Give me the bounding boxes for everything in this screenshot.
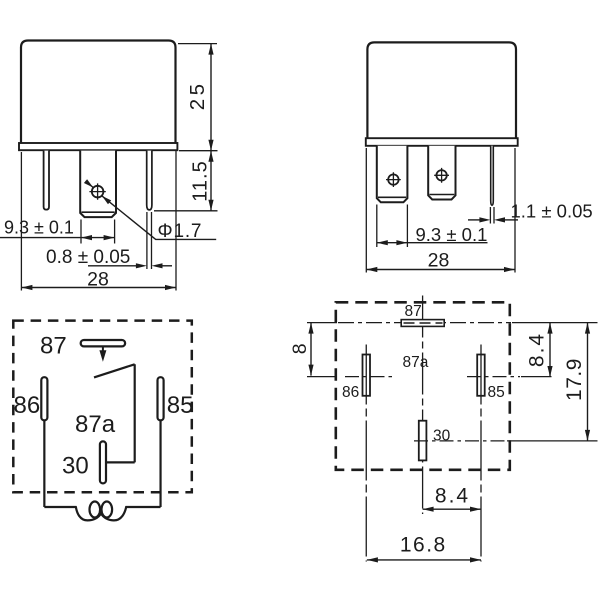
pin 30 pad (bottom view) xyxy=(419,421,427,461)
dim 0.8 extension lines xyxy=(147,212,152,269)
horizontal centerline through 86 (at pin) xyxy=(345,376,394,378)
relay base flange (front view) xyxy=(366,138,518,146)
coil L1 loop 2 xyxy=(102,502,113,518)
svg-text:28: 28 xyxy=(428,250,450,272)
dim 28 extension lines (view B) xyxy=(366,148,515,273)
dim 11.5 arrows xyxy=(208,151,213,162)
dim 8.4 line (bottom) xyxy=(423,508,481,510)
blade pin 86 (front view) xyxy=(377,146,408,203)
blade 86 tip fold line xyxy=(378,196,406,198)
dim 1.1 right tail and arrow xyxy=(505,219,519,221)
blade pin 30 (front view) xyxy=(428,146,455,200)
schematic dashed border xyxy=(13,321,192,493)
wire 85 down xyxy=(159,421,161,507)
svg-text:86: 86 xyxy=(342,384,359,401)
dim 17.9 line xyxy=(587,323,589,441)
svg-text:Φ1.7: Φ1.7 xyxy=(158,221,203,242)
coil L1 loop 1 xyxy=(90,502,101,518)
svg-text:87a: 87a xyxy=(403,354,429,371)
dim 9.3 line (view A) xyxy=(0,237,115,239)
coil L1 scallops xyxy=(76,506,127,520)
relay body (front view) xyxy=(367,42,516,139)
dim 0.8 left tail and arrow xyxy=(88,265,137,267)
contact 86 bar xyxy=(41,377,47,420)
svg-text:87: 87 xyxy=(405,303,422,320)
centerline inside 87 pad xyxy=(404,322,443,324)
pin right (side view) xyxy=(147,151,152,210)
horizontal centerline through 87 (inside box) xyxy=(338,322,511,324)
dim 8.4 arrows (bottom) xyxy=(423,507,434,512)
leader arrowhead upper-left of hole xyxy=(84,179,93,187)
bottom view dashed border xyxy=(336,302,510,470)
pin 86 vertical centerline xyxy=(365,345,367,562)
svg-text:11.5: 11.5 xyxy=(190,160,212,201)
blade pin 30 (side view) xyxy=(80,151,116,218)
wire to coil right xyxy=(126,506,161,508)
dim 28 arrows xyxy=(21,285,32,290)
dim 16.8 line xyxy=(367,559,481,561)
blade 30 tip fold line xyxy=(429,194,454,196)
relay base flange (side view) xyxy=(19,143,177,150)
dim 28 line (view A) xyxy=(21,287,176,289)
pin 85 pad (bottom view) xyxy=(477,355,485,396)
dim 11.5 line xyxy=(210,151,212,211)
horizontal centerline through 85 (right ext) xyxy=(521,376,552,378)
svg-text:17.9: 17.9 xyxy=(563,358,586,401)
blade tip fold line xyxy=(82,211,115,213)
hole 30 crosshair xyxy=(434,168,449,183)
wire to coil left xyxy=(44,506,76,508)
dim 25 extension top xyxy=(178,43,217,45)
dim 1.1 extension lines xyxy=(490,207,494,224)
svg-text:85: 85 xyxy=(488,384,505,401)
horizontal centerline through 86 (left ext) xyxy=(307,376,337,378)
dim 16.8 arrows xyxy=(367,557,378,562)
wire 86 down xyxy=(43,421,45,507)
contact 87 bar xyxy=(81,340,125,346)
dim 25 line xyxy=(210,44,212,151)
dim 9.3 extension lines (view B) xyxy=(377,205,408,248)
dim 8.4 line (right top) xyxy=(549,323,551,377)
horizontal centerline through 30 (right ext) xyxy=(507,440,598,442)
relay body (side view) xyxy=(21,41,176,145)
svg-text:87a: 87a xyxy=(75,411,116,438)
hole in blade xyxy=(92,186,104,198)
leader line PHI 1.7 xyxy=(102,196,216,240)
switch blade (movable contact) xyxy=(94,364,135,377)
hole 86 crosshair xyxy=(386,172,401,187)
dim 1.1 left tail and arrow xyxy=(468,219,480,221)
pin 86 pad (bottom view) xyxy=(363,355,371,396)
svg-text:86: 86 xyxy=(14,392,41,419)
leader arrowhead lower-right of hole xyxy=(102,196,111,204)
svg-text:30: 30 xyxy=(433,428,451,445)
svg-text:1.1 ± 0.05: 1.1 ± 0.05 xyxy=(511,200,593,221)
vertical centerline xyxy=(422,296,424,515)
horizontal centerline through 85 (at pin) xyxy=(467,376,520,378)
dim 25/11.5 extension mid (base bottom) xyxy=(179,150,218,152)
pin left (side view) xyxy=(44,151,49,210)
dim 9.3 arrows (view B) xyxy=(377,240,388,245)
dim 25 arrows xyxy=(208,44,213,55)
dim 28 arrows (view B) xyxy=(366,267,377,272)
dim 8.4 arrows (right top) xyxy=(547,323,552,334)
dim 11.5 extension bottom xyxy=(154,210,218,212)
svg-text:8: 8 xyxy=(289,343,311,354)
svg-text:30: 30 xyxy=(62,453,89,480)
hole in blade 86 xyxy=(388,174,398,184)
svg-text:9.3 ± 0.1: 9.3 ± 0.1 xyxy=(4,218,74,238)
hole crosshair xyxy=(89,183,105,199)
wire to contact 30 xyxy=(105,461,135,463)
dim 28 line (view B) xyxy=(366,269,515,271)
pin 85 vertical centerline xyxy=(480,345,482,562)
contact 30 bar xyxy=(100,441,106,483)
svg-text:9.3 ± 0.1: 9.3 ± 0.1 xyxy=(416,224,488,245)
pin 87 pad (bottom view) xyxy=(401,320,444,327)
dim 17.9 arrows xyxy=(585,323,590,334)
dim 9.3 line (view B) xyxy=(377,242,488,244)
horizontal centerline through 87 (right ext) xyxy=(512,322,598,324)
thin pin 85 (front view) xyxy=(491,146,494,206)
contact 85 bar xyxy=(158,377,164,420)
dim 9.3 extension lines xyxy=(81,220,115,244)
dim 9.3 arrow left xyxy=(81,235,92,240)
svg-text:16.8: 16.8 xyxy=(400,533,447,556)
svg-text:87: 87 xyxy=(40,333,67,360)
hole in blade 30 xyxy=(436,170,446,180)
dim 28 extension lines (view A) xyxy=(21,151,176,291)
dim 9.3 arrow right xyxy=(104,235,115,240)
arrow from 87 bar xyxy=(102,347,104,352)
dim 8 line (left) xyxy=(310,323,312,376)
wire from blade down xyxy=(134,364,136,462)
svg-text:0.8 ± 0.05: 0.8 ± 0.05 xyxy=(46,247,130,268)
svg-text:25: 25 xyxy=(186,80,209,110)
dim 0.8 right tail and arrow xyxy=(162,265,172,267)
svg-text:8.4: 8.4 xyxy=(435,485,470,508)
dim 8 arrows xyxy=(308,323,313,334)
svg-text:85: 85 xyxy=(167,392,194,419)
svg-text:8.4: 8.4 xyxy=(526,332,549,367)
horizontal centerline through 30 (at pin) xyxy=(414,440,506,442)
leader tail upper-left of hole xyxy=(86,181,94,187)
horizontal centerline through 87 (left ext) xyxy=(307,322,337,324)
